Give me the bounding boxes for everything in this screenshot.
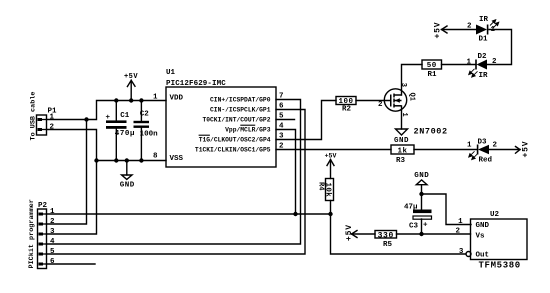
svg-text:VSS: VSS <box>170 155 184 163</box>
svg-text:GND: GND <box>476 222 490 230</box>
svg-text:GND: GND <box>394 137 409 145</box>
svg-text:8: 8 <box>153 153 158 161</box>
svg-text:GND: GND <box>414 172 429 180</box>
svg-text:R1: R1 <box>427 71 437 79</box>
svg-text:D3: D3 <box>478 139 488 147</box>
svg-text:3: 3 <box>399 83 407 87</box>
svg-text:U2: U2 <box>490 211 500 219</box>
svg-text:To USB cable: To USB cable <box>29 92 37 141</box>
svg-text:R4: R4 <box>317 182 325 190</box>
svg-text:2N7002: 2N7002 <box>414 127 448 137</box>
svg-text:3: 3 <box>50 228 55 236</box>
svg-text:IR: IR <box>479 16 489 24</box>
svg-text:C1: C1 <box>120 112 130 120</box>
svg-text:2: 2 <box>50 124 55 132</box>
svg-text:PICkit programmer: PICkit programmer <box>28 199 36 268</box>
svg-text:2: 2 <box>492 58 497 66</box>
svg-text:2: 2 <box>378 101 383 109</box>
svg-text:1: 1 <box>153 94 158 102</box>
svg-text:4: 4 <box>279 123 284 131</box>
svg-text:1: 1 <box>50 208 55 216</box>
svg-text:Vpp/MCLR/GP3: Vpp/MCLR/GP3 <box>225 127 271 134</box>
svg-text:GND: GND <box>120 181 135 189</box>
svg-text:R5: R5 <box>383 241 393 249</box>
svg-text:T0CKI/INT/COUT/GP2: T0CKI/INT/COUT/GP2 <box>202 117 270 124</box>
svg-text:+5V: +5V <box>124 73 138 81</box>
svg-text:5: 5 <box>279 113 284 121</box>
svg-text:+: + <box>106 114 111 122</box>
svg-text:1k: 1k <box>397 148 407 156</box>
svg-text:TFM5380: TFM5380 <box>479 261 521 271</box>
svg-text:Q1: Q1 <box>408 93 416 101</box>
svg-text:+5V: +5V <box>345 224 354 241</box>
svg-text:+5V: +5V <box>522 141 531 158</box>
svg-text:7: 7 <box>279 93 284 101</box>
svg-text:470µ: 470µ <box>115 130 135 138</box>
svg-text:1: 1 <box>50 114 55 122</box>
svg-text:1: 1 <box>467 142 472 150</box>
svg-text:2: 2 <box>467 23 472 31</box>
svg-text:2: 2 <box>455 228 460 236</box>
svg-text:2: 2 <box>50 218 55 226</box>
svg-text:Out: Out <box>476 252 490 260</box>
svg-text:+5V: +5V <box>433 22 442 39</box>
svg-text:CIN-/ICSPCLK/GP1: CIN-/ICSPCLK/GP1 <box>210 107 271 114</box>
svg-text:6: 6 <box>279 103 284 111</box>
svg-text:D2: D2 <box>478 53 488 61</box>
svg-text:100n: 100n <box>140 130 159 138</box>
svg-text:T1CKI/CLKIN/OSC1/GP5: T1CKI/CLKIN/OSC1/GP5 <box>195 147 271 154</box>
svg-text:U1: U1 <box>166 69 176 77</box>
svg-text:3: 3 <box>279 133 284 141</box>
svg-text:CIN+/ICSPDAT/GP0: CIN+/ICSPDAT/GP0 <box>210 97 271 104</box>
svg-text:P2: P2 <box>38 202 48 210</box>
svg-text:VDD: VDD <box>170 95 184 103</box>
svg-text:2: 2 <box>279 143 284 151</box>
svg-text:1: 1 <box>491 26 496 34</box>
svg-text:4: 4 <box>50 238 55 246</box>
svg-text:1: 1 <box>458 218 463 226</box>
svg-text:3: 3 <box>459 248 464 256</box>
svg-text:1: 1 <box>466 59 471 67</box>
svg-text:+5V: +5V <box>325 153 337 160</box>
svg-text:Red: Red <box>479 157 493 165</box>
svg-text:D1: D1 <box>479 36 489 44</box>
svg-text:T1G/CLKOUT/OSC2/GP4: T1G/CLKOUT/OSC2/GP4 <box>199 137 271 144</box>
svg-text:5: 5 <box>50 248 55 256</box>
svg-text:47µ: 47µ <box>404 204 418 212</box>
svg-text:IR: IR <box>479 72 489 80</box>
svg-text:10k: 10k <box>324 183 332 198</box>
svg-text:330: 330 <box>378 231 394 240</box>
svg-text:2: 2 <box>493 142 498 150</box>
svg-text:50: 50 <box>427 62 437 70</box>
svg-text:1: 1 <box>400 113 408 117</box>
svg-text:PIC12F629-IMC: PIC12F629-IMC <box>166 80 226 88</box>
svg-text:C2: C2 <box>140 110 150 118</box>
svg-text:R2: R2 <box>342 106 352 114</box>
svg-text:+: + <box>423 222 428 230</box>
svg-text:C3: C3 <box>409 223 419 231</box>
svg-text:Vs: Vs <box>476 233 486 241</box>
svg-text:R3: R3 <box>396 157 406 165</box>
svg-text:6: 6 <box>50 258 55 266</box>
